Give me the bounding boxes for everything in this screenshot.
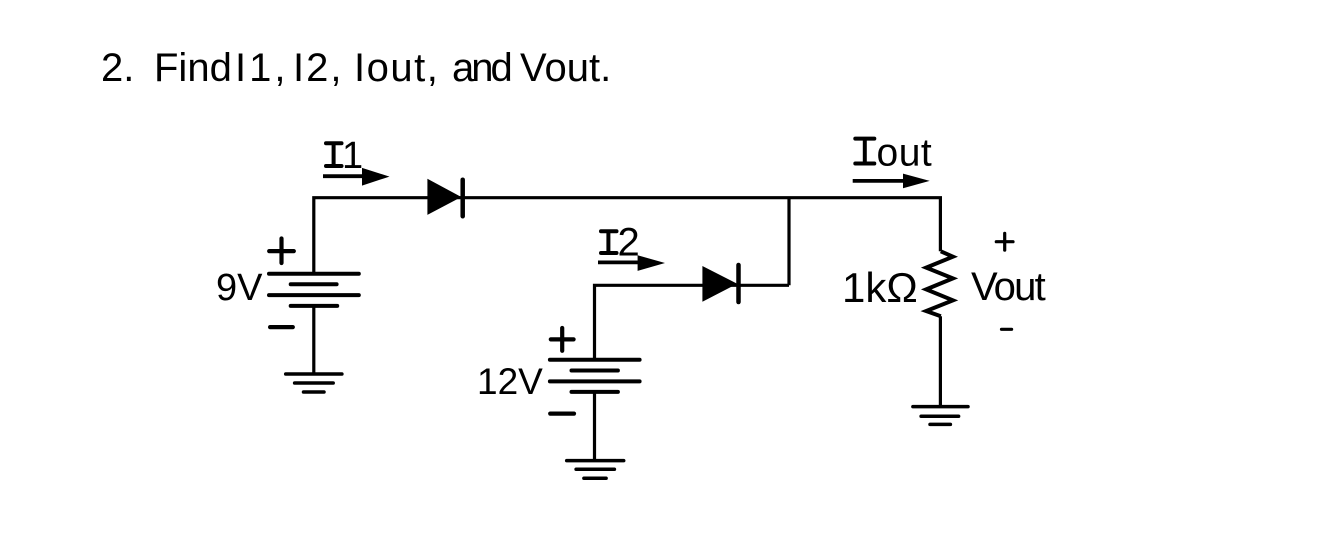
svg-text:2: 2 [618, 221, 640, 265]
svg-text:12V: 12V [477, 361, 543, 402]
svg-text:2.FindI1,I2,Iout,andVout.: 2.FindI1,I2,Iout,andVout. [101, 46, 611, 90]
svg-text:1kΩ: 1kΩ [842, 264, 918, 311]
svg-text:9V: 9V [216, 267, 263, 309]
svg-text:1: 1 [342, 135, 363, 177]
svg-text:out: out [877, 132, 933, 175]
svg-text:Vout: Vout [971, 265, 1046, 309]
